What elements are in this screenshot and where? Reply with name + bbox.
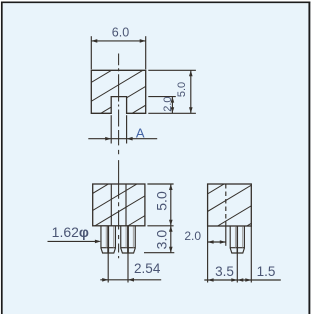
front view hatching (86, 159, 150, 251)
side view body rectangle (208, 184, 252, 226)
side view 2.0 ext line (hidden line continuation) (225, 226, 227, 246)
dim 6.0 arrows (91, 39, 145, 43)
svg-text:2.0: 2.0 (184, 229, 201, 243)
frame border right (308, 2, 310, 314)
svg-text:5.0: 5.0 (176, 82, 188, 97)
front view body rectangle (93, 184, 145, 226)
dim 1.5 arrows (237, 278, 251, 282)
dim A arrows (outside) (105, 137, 132, 141)
side view hatching (201, 164, 258, 254)
vertical centerline through top and front views (118, 54, 120, 259)
dim 3.0 (front) line + arrows (170, 226, 172, 253)
dim 5.0 (front) line + arrows (170, 184, 172, 226)
svg-text:5.0: 5.0 (154, 191, 170, 211)
front pin 1 (101, 226, 116, 253)
svg-text:2.54: 2.54 (134, 261, 161, 276)
dim 3.5 arrows (208, 278, 238, 282)
svg-text:3.0: 3.0 (154, 230, 170, 250)
front view right extension lines (147, 183, 173, 185)
front view inner slot lines (110, 184, 112, 226)
svg-text:A: A (136, 125, 145, 140)
dim 2.0 (side) line + arrows (208, 241, 226, 243)
side view hidden line (dashed) (225, 184, 227, 226)
front pin 1 center edge / ext line (107, 226, 109, 253)
side bottom dimension line (204, 279, 280, 281)
frame border left (1, 2, 3, 314)
top view pin side lines below body (110, 115, 112, 143)
front pin 2 center edge / ext line (127, 226, 129, 253)
dim A dimension line (88, 138, 157, 140)
svg-text:1.62φ: 1.62φ (52, 224, 89, 240)
dim 6.0 dimension line (91, 40, 145, 42)
frame border top (1, 1, 310, 3)
side pin (230, 226, 244, 253)
top view hatching (85, 47, 150, 141)
side view right ext line (250, 226, 252, 283)
svg-text:1.5: 1.5 (257, 264, 276, 279)
top view right extension lines (148, 69, 196, 71)
side view left ext line (207, 226, 209, 283)
dim 2.54 dimension line (100, 279, 161, 281)
dim 6.0 extension lines (90, 36, 92, 69)
leader 1.62phi (48, 240, 100, 242)
side pin center edge / ext line (236, 226, 238, 253)
svg-text:6.0: 6.0 (112, 26, 129, 40)
dim 2.0 (top view) line + arrows (171, 97, 173, 114)
front pin 2 (121, 226, 136, 253)
dim 2.54 arrows (outside) (102, 278, 134, 282)
svg-text:2.0: 2.0 (162, 96, 174, 111)
top view body outline with bottom notch (91, 70, 145, 113)
svg-text:3.5: 3.5 (215, 264, 234, 279)
dim 5.0 (top view) line + arrows (190, 70, 192, 113)
